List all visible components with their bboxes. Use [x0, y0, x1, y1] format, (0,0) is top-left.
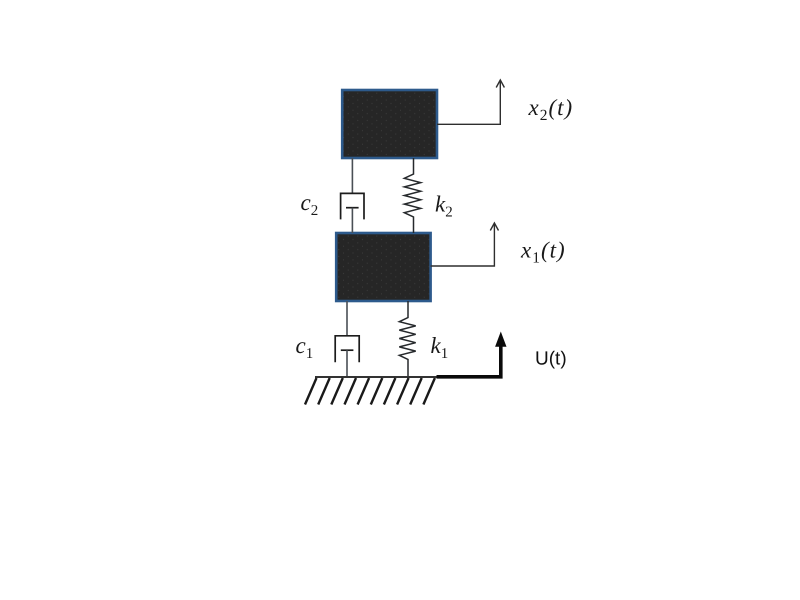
ground line: [315, 376, 440, 378]
mass M1 (bottom block): [336, 233, 430, 301]
arrowhead of x2 arrow: [496, 80, 504, 88]
damper C1 cylinder: [335, 336, 359, 363]
svg-text:x2(t): x2(t): [528, 95, 574, 124]
ground hatching: [305, 378, 435, 405]
svg-text:U(t): U(t): [535, 349, 567, 370]
arrowhead of U(t): [495, 332, 506, 347]
damper C2 cylinder: [341, 193, 364, 219]
wire: rod from mass M1 to damper C1: [346, 301, 348, 336]
arrowhead of x1 arrow: [490, 223, 498, 231]
wire: x1 measurement arrow: [431, 224, 495, 266]
arrow U(t) input (thick): [437, 346, 501, 377]
spring K2: [404, 158, 420, 233]
wire: x2 measurement arrow: [437, 81, 500, 124]
svg-text:x1(t): x1(t): [520, 238, 566, 267]
damper C2 piston: [346, 207, 359, 209]
mass M2 (top block): [342, 90, 437, 158]
svg-text:k1: k1: [431, 333, 449, 362]
spring K1: [399, 301, 415, 377]
wire: rod from mass M2 to damper C2: [351, 158, 353, 193]
svg-text:c1: c1: [296, 333, 314, 362]
damper C1 piston: [341, 349, 354, 351]
svg-text:c2: c2: [301, 190, 319, 219]
wire: rod from damper C1 piston to ground: [346, 350, 348, 377]
wire: rod from damper C2 piston to mass M1: [351, 208, 353, 233]
svg-text:k2: k2: [435, 192, 453, 221]
